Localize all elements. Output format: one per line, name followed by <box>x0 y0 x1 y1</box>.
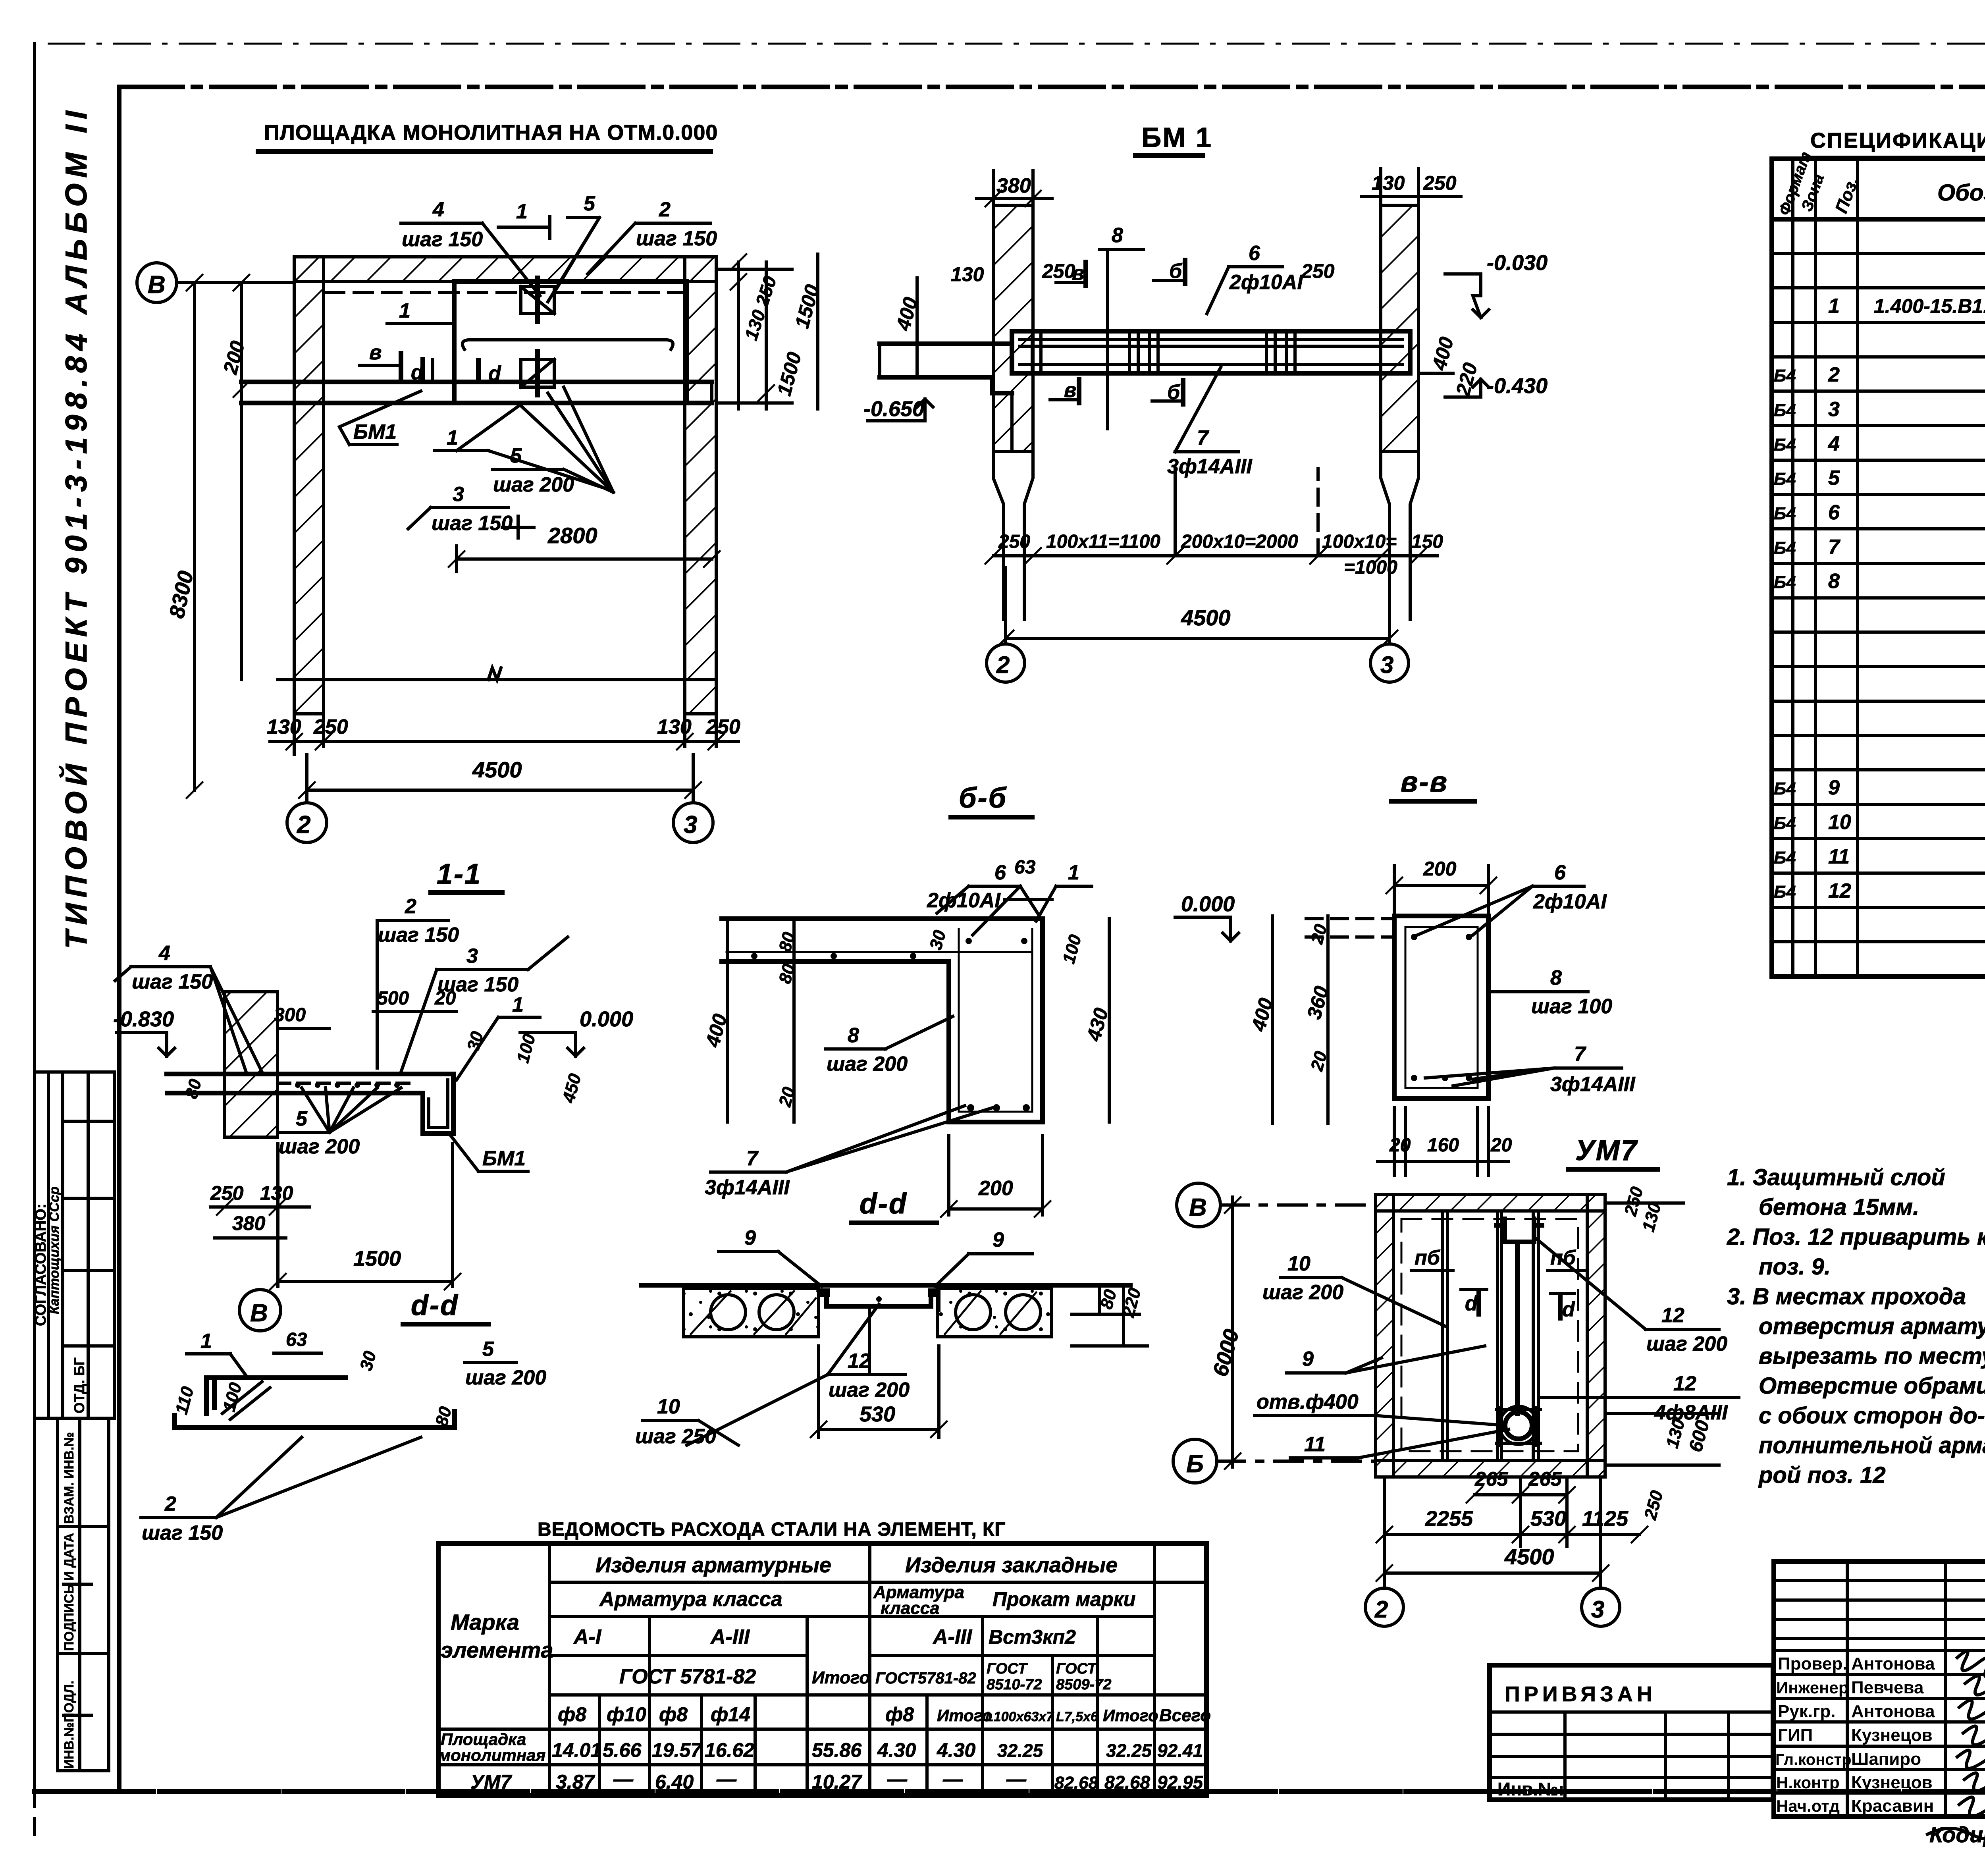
svg-text:3ф14АIII: 3ф14АIII <box>1167 455 1253 478</box>
svg-text:7: 7 <box>1197 426 1209 449</box>
svg-text:5: 5 <box>510 444 522 467</box>
svg-text:4: 4 <box>1828 432 1840 455</box>
svg-text:шаг 150: шаг 150 <box>132 970 213 993</box>
svg-text:160: 160 <box>1427 1135 1459 1156</box>
svg-text:7: 7 <box>1574 1043 1586 1066</box>
svg-text:ПРИВЯЗАН: ПРИВЯЗАН <box>1505 1682 1656 1706</box>
svg-text:пб: пб <box>1415 1246 1441 1269</box>
svg-text:В: В <box>1189 1194 1207 1221</box>
svg-text:шаг 150: шаг 150 <box>432 512 513 535</box>
svg-text:3.87: 3.87 <box>556 1771 595 1793</box>
svg-text:Инв.№:: Инв.№: <box>1497 1779 1565 1799</box>
svg-text:Б4: Б4 <box>1774 504 1796 523</box>
svg-text:-0.430: -0.430 <box>1487 374 1548 398</box>
svg-text:1125: 1125 <box>1582 1507 1628 1531</box>
svg-text:4.30: 4.30 <box>877 1739 916 1761</box>
svg-text:ВЕДОМОСТЬ РАСХОДА СТАЛИ НА ЭЛЕ: ВЕДОМОСТЬ РАСХОДА СТАЛИ НА ЭЛЕМЕНТ, КГ <box>538 1519 1006 1540</box>
svg-text:-0.650: -0.650 <box>863 397 924 421</box>
svg-text:1: 1 <box>447 426 458 449</box>
svg-text:ф8: ф8 <box>558 1703 586 1726</box>
svg-text:200х10=2000: 200х10=2000 <box>1181 531 1298 552</box>
svg-text:d: d <box>1562 1298 1575 1321</box>
svg-text:ПЛОЩАДКА МОНОЛИТНАЯ НА ОТМ.0.0: ПЛОЩАДКА МОНОЛИТНАЯ НА ОТМ.0.000 <box>264 121 718 145</box>
svg-text:265: 265 <box>1528 1468 1562 1490</box>
svg-text:поз. 9.: поз. 9. <box>1759 1254 1831 1280</box>
svg-text:10.27: 10.27 <box>812 1771 862 1793</box>
svg-text:12: 12 <box>1661 1304 1684 1327</box>
svg-text:20: 20 <box>434 988 456 1009</box>
svg-text:3: 3 <box>1380 652 1393 678</box>
svg-text:82,68: 82,68 <box>1104 1772 1151 1793</box>
svg-text:2: 2 <box>164 1492 176 1515</box>
svg-text:8: 8 <box>848 1024 859 1047</box>
svg-text:55.86: 55.86 <box>812 1739 862 1761</box>
svg-text:—: — <box>1006 1768 1027 1790</box>
svg-text:380: 380 <box>996 174 1031 197</box>
svg-text:130: 130 <box>267 715 301 738</box>
svg-text:92.41: 92.41 <box>1157 1740 1203 1761</box>
svg-text:шаг 200: шаг 200 <box>1646 1332 1727 1355</box>
svg-text:7: 7 <box>746 1147 759 1170</box>
svg-text:1: 1 <box>399 299 410 322</box>
svg-text:—: — <box>716 1768 737 1790</box>
svg-text:1: 1 <box>1068 861 1079 884</box>
svg-text:d-d: d-d <box>411 1290 459 1321</box>
svg-text:б-б: б-б <box>959 782 1007 814</box>
svg-text:150: 150 <box>1411 531 1443 552</box>
svg-text:250: 250 <box>210 1182 244 1204</box>
svg-text:Кузнецов: Кузнецов <box>1851 1773 1933 1792</box>
svg-text:5.66: 5.66 <box>603 1739 642 1761</box>
svg-text:2: 2 <box>1374 1596 1388 1623</box>
svg-text:1-1: 1-1 <box>437 858 482 890</box>
svg-text:ИНВ.№ПОДЛ.: ИНВ.№ПОДЛ. <box>62 1681 76 1769</box>
svg-text:130: 130 <box>1372 172 1405 194</box>
svg-text:8: 8 <box>1112 224 1123 247</box>
svg-text:ГИП: ГИП <box>1778 1726 1813 1745</box>
svg-text:19.57: 19.57 <box>652 1739 702 1761</box>
svg-text:в-в: в-в <box>1401 766 1448 798</box>
svg-text:3: 3 <box>466 945 478 968</box>
svg-text:7: 7 <box>1828 536 1840 559</box>
svg-text:2. Поз. 12 приварить к: 2. Поз. 12 приварить к <box>1727 1224 1985 1250</box>
svg-text:32.25: 32.25 <box>1106 1740 1152 1761</box>
svg-text:8509-72: 8509-72 <box>1056 1676 1111 1693</box>
svg-text:12: 12 <box>1828 879 1851 902</box>
svg-text:6: 6 <box>1554 861 1566 884</box>
svg-text:шаг 100: шаг 100 <box>1531 995 1612 1018</box>
svg-text:ГОСТ 5781-82: ГОСТ 5781-82 <box>619 1665 756 1688</box>
svg-text:бетона 15мм.: бетона 15мм. <box>1759 1194 1919 1220</box>
svg-text:250: 250 <box>998 531 1030 552</box>
svg-text:12: 12 <box>1673 1372 1696 1395</box>
svg-text:ПОДПИСЬ И ДАТА: ПОДПИСЬ И ДАТА <box>62 1533 76 1651</box>
svg-text:12: 12 <box>848 1350 871 1373</box>
svg-text:Антонова: Антонова <box>1851 1654 1935 1674</box>
svg-text:шаг 150: шаг 150 <box>378 924 459 947</box>
svg-text:шаг 200: шаг 200 <box>827 1053 908 1076</box>
svg-text:А-I: А-I <box>573 1625 602 1648</box>
svg-text:БМ1: БМ1 <box>353 420 397 443</box>
svg-text:рой поз. 12: рой поз. 12 <box>1758 1462 1886 1488</box>
svg-text:Инженер: Инженер <box>1776 1678 1849 1697</box>
svg-text:Изделия арматурные: Изделия арматурные <box>595 1553 831 1577</box>
svg-text:d-d: d-d <box>860 1188 908 1220</box>
svg-text:1. Защитный слой: 1. Защитный слой <box>1727 1165 1945 1190</box>
svg-text:СПЕЦИФИКАЦИЯ МОНОЛИТНЫХ ПЛОЩ: СПЕЦИФИКАЦИЯ МОНОЛИТНЫХ ПЛОЩАДКИ И УЧАСТ… <box>1810 129 1985 152</box>
svg-text:4.30: 4.30 <box>937 1739 976 1761</box>
svg-text:300: 300 <box>274 1005 306 1026</box>
svg-text:Кузнецов: Кузнецов <box>1851 1726 1933 1745</box>
svg-text:100х11=1100: 100х11=1100 <box>1046 531 1160 552</box>
svg-text:Б: Б <box>1186 1450 1204 1478</box>
svg-text:0.000: 0.000 <box>580 1007 633 1031</box>
svg-text:Итого: Итого <box>812 1668 870 1687</box>
svg-text:3: 3 <box>1591 1596 1604 1623</box>
svg-text:Прокат марки: Прокат марки <box>992 1588 1135 1610</box>
svg-text:А-III: А-III <box>932 1625 973 1648</box>
svg-text:10: 10 <box>657 1395 680 1418</box>
svg-text:Б4: Б4 <box>1774 538 1796 558</box>
svg-text:В: В <box>250 1300 268 1327</box>
svg-text:9: 9 <box>744 1226 756 1249</box>
svg-text:4500: 4500 <box>1504 1544 1554 1569</box>
svg-text:250: 250 <box>1423 172 1457 194</box>
svg-text:Обозначение: Обозначение <box>1937 180 1985 206</box>
svg-text:класса: класса <box>881 1598 940 1618</box>
svg-text:1: 1 <box>512 993 524 1016</box>
svg-text:Изделия закладные: Изделия закладные <box>905 1553 1118 1577</box>
svg-text:63: 63 <box>1014 857 1036 878</box>
svg-text:Антонова: Антонова <box>1851 1702 1935 1721</box>
svg-text:1500: 1500 <box>353 1247 401 1271</box>
svg-text:1.400-15.В1.540-01: 1.400-15.В1.540-01 <box>1874 295 1985 317</box>
svg-text:БМ1: БМ1 <box>482 1147 526 1170</box>
svg-text:3: 3 <box>453 483 464 506</box>
svg-text:—: — <box>613 1768 634 1790</box>
svg-text:в: в <box>369 341 382 364</box>
svg-text:4: 4 <box>432 198 444 221</box>
svg-text:5: 5 <box>482 1338 494 1361</box>
svg-text:d: d <box>1465 1292 1478 1315</box>
svg-text:Б4: Б4 <box>1774 366 1796 386</box>
svg-text:32.25: 32.25 <box>997 1740 1044 1761</box>
svg-text:92.95: 92.95 <box>1157 1772 1204 1793</box>
svg-text:130: 130 <box>951 263 984 285</box>
svg-text:200: 200 <box>1423 858 1457 880</box>
svg-text:9: 9 <box>1828 776 1840 799</box>
svg-text:ГОСТ: ГОСТ <box>987 1660 1028 1677</box>
svg-text:-0.830: -0.830 <box>113 1007 174 1031</box>
svg-text:ф8: ф8 <box>885 1703 914 1726</box>
svg-text:Гл.констр: Гл.констр <box>1775 1751 1852 1768</box>
svg-text:УМ7: УМ7 <box>470 1771 513 1793</box>
svg-text:4500: 4500 <box>472 757 522 782</box>
svg-text:шаг 150: шаг 150 <box>402 228 483 251</box>
svg-text:ОТД. БГ: ОТД. БГ <box>71 1357 87 1413</box>
svg-text:2ф10АI: 2ф10АI <box>1533 890 1607 913</box>
svg-text:отверстия арматуру: отверстия арматуру <box>1759 1313 1985 1339</box>
svg-text:ГОСТ5781-82: ГОСТ5781-82 <box>875 1670 976 1687</box>
svg-text:3: 3 <box>1828 398 1840 421</box>
svg-text:3. В местах прохода: 3. В местах прохода <box>1727 1284 1966 1309</box>
svg-text:16.62: 16.62 <box>705 1739 754 1761</box>
svg-text:БМ 1: БМ 1 <box>1141 122 1212 153</box>
svg-text:УМ7: УМ7 <box>1575 1135 1638 1166</box>
svg-text:100х10=: 100х10= <box>1322 531 1397 552</box>
svg-text:Итого: Итого <box>1103 1706 1158 1725</box>
svg-text:Марка: Марка <box>451 1610 519 1635</box>
svg-text:14.01: 14.01 <box>552 1739 601 1761</box>
svg-text:шаг 200: шаг 200 <box>279 1135 360 1158</box>
svg-text:-0.030: -0.030 <box>1487 251 1548 275</box>
svg-text:0.000: 0.000 <box>1181 892 1235 916</box>
svg-text:4: 4 <box>158 942 170 965</box>
svg-text:вырезать по месту.: вырезать по месту. <box>1759 1343 1985 1369</box>
svg-text:2800: 2800 <box>547 523 597 548</box>
svg-text:10: 10 <box>1828 811 1851 834</box>
svg-text:ф8: ф8 <box>659 1703 688 1726</box>
svg-text:2: 2 <box>996 652 1010 678</box>
svg-text:шаг 200: шаг 200 <box>1262 1281 1343 1304</box>
svg-text:Рук.гр.: Рук.гр. <box>1778 1702 1836 1721</box>
svg-text:1: 1 <box>200 1330 212 1353</box>
svg-text:530: 530 <box>1530 1507 1566 1531</box>
svg-text:8: 8 <box>1828 570 1840 593</box>
svg-text:63: 63 <box>286 1329 307 1350</box>
svg-text:20: 20 <box>1490 1135 1512 1156</box>
svg-text:отв.ф400: отв.ф400 <box>1257 1390 1359 1413</box>
svg-text:В: В <box>148 271 166 299</box>
svg-text:Вст3кп2: Вст3кп2 <box>989 1626 1076 1648</box>
svg-text:500: 500 <box>377 988 409 1009</box>
svg-text:10: 10 <box>1287 1252 1310 1275</box>
svg-text:250: 250 <box>1301 260 1335 282</box>
svg-text:L7,5х6: L7,5х6 <box>1056 1709 1098 1724</box>
svg-text:5: 5 <box>584 192 595 215</box>
svg-text:шаг 200: шаг 200 <box>465 1366 546 1389</box>
svg-text:Б4: Б4 <box>1774 435 1796 455</box>
svg-text:Нач.отд: Нач.отд <box>1776 1797 1840 1815</box>
svg-text:Певчева: Певчева <box>1851 1678 1924 1697</box>
svg-text:6: 6 <box>1828 501 1840 524</box>
svg-text:Каптощихия ССср: Каптощихия ССср <box>47 1186 62 1314</box>
svg-text:пб: пб <box>1550 1246 1576 1269</box>
svg-text:20: 20 <box>1389 1135 1411 1156</box>
svg-text:250: 250 <box>1042 260 1075 282</box>
svg-text:6: 6 <box>1249 242 1260 265</box>
svg-text:d: d <box>488 362 501 385</box>
svg-text:3: 3 <box>684 811 697 839</box>
svg-text:L100х63х7: L100х63х7 <box>985 1709 1054 1724</box>
svg-text:Арматура класса: Арматура класса <box>599 1588 782 1611</box>
svg-text:2ф10АI: 2ф10АI <box>1229 271 1303 294</box>
svg-text:шаг 250: шаг 250 <box>635 1425 716 1448</box>
svg-text:шаг 150: шаг 150 <box>142 1521 223 1544</box>
svg-text:элемента: элемента <box>441 1637 553 1662</box>
svg-text:11: 11 <box>1828 845 1850 868</box>
svg-text:2: 2 <box>405 895 416 918</box>
svg-text:5: 5 <box>1828 467 1840 490</box>
svg-text:Кодировка Коршунова: Кодировка Коршунова <box>1929 1822 1985 1847</box>
svg-text:200: 200 <box>978 1177 1013 1200</box>
svg-text:2255: 2255 <box>1425 1507 1473 1531</box>
svg-text:82.68: 82.68 <box>1054 1773 1098 1793</box>
svg-text:Б4: Б4 <box>1774 882 1796 902</box>
svg-text:6: 6 <box>994 861 1006 884</box>
svg-text:9: 9 <box>992 1228 1004 1251</box>
svg-text:ф14: ф14 <box>711 1703 750 1726</box>
svg-text:ГОСТ: ГОСТ <box>1056 1660 1097 1677</box>
svg-text:Итого: Итого <box>937 1706 992 1725</box>
svg-text:ф10: ф10 <box>607 1703 646 1726</box>
svg-text:шаг 200: шаг 200 <box>829 1379 910 1402</box>
svg-text:ТИПОВОЙ ПРОЕКТ 901-3-198.84 АЛ: ТИПОВОЙ ПРОЕКТ 901-3-198.84 АЛЬБОМ II <box>59 105 93 949</box>
svg-text:Б4: Б4 <box>1774 814 1796 833</box>
svg-text:8510-72: 8510-72 <box>987 1676 1042 1693</box>
svg-text:Провер.: Провер. <box>1778 1654 1847 1674</box>
svg-text:Б4: Б4 <box>1774 401 1796 420</box>
svg-text:6.40: 6.40 <box>655 1771 694 1793</box>
svg-text:1: 1 <box>1828 295 1840 318</box>
svg-text:3ф14АIII: 3ф14АIII <box>1550 1073 1636 1096</box>
svg-text:2: 2 <box>1828 363 1840 386</box>
svg-text:9: 9 <box>1302 1348 1314 1371</box>
svg-text:ВЗАМ. ИНВ.№: ВЗАМ. ИНВ.№ <box>62 1432 76 1524</box>
svg-text:Всего: Всего <box>1159 1706 1211 1725</box>
svg-text:11: 11 <box>1304 1433 1326 1456</box>
svg-text:Б4: Б4 <box>1774 573 1796 592</box>
svg-text:с обоих сторон до-: с обоих сторон до- <box>1759 1403 1985 1429</box>
svg-text:8: 8 <box>1550 966 1562 989</box>
svg-text:380: 380 <box>232 1212 266 1234</box>
svg-text:—: — <box>887 1768 908 1790</box>
svg-text:полнительной армату-: полнительной армату- <box>1759 1433 1985 1458</box>
svg-text:3ф14АIII: 3ф14АIII <box>705 1176 790 1199</box>
svg-text:Б4: Б4 <box>1774 779 1796 798</box>
svg-text:Красавин: Красавин <box>1851 1796 1934 1816</box>
svg-text:4500: 4500 <box>1181 605 1231 630</box>
svg-text:265: 265 <box>1474 1468 1509 1490</box>
svg-text:шаг 200: шаг 200 <box>493 473 574 496</box>
svg-text:2: 2 <box>659 198 671 221</box>
svg-text:Н.контр: Н.контр <box>1776 1773 1840 1792</box>
svg-text:Отверстие обрамить: Отверстие обрамить <box>1759 1373 1985 1399</box>
svg-text:А-III: А-III <box>710 1625 750 1648</box>
svg-text:Б4: Б4 <box>1774 469 1796 489</box>
svg-text:5: 5 <box>296 1107 308 1130</box>
svg-text:Б4: Б4 <box>1774 848 1796 868</box>
svg-text:шаг 150: шаг 150 <box>636 227 717 250</box>
svg-text:—: — <box>942 1768 963 1790</box>
svg-text:Шапиро: Шапиро <box>1851 1749 1921 1769</box>
svg-text:монолитная: монолитная <box>438 1746 545 1764</box>
svg-text:1: 1 <box>516 200 528 223</box>
svg-text:530: 530 <box>860 1402 895 1426</box>
svg-text:2: 2 <box>297 811 310 839</box>
